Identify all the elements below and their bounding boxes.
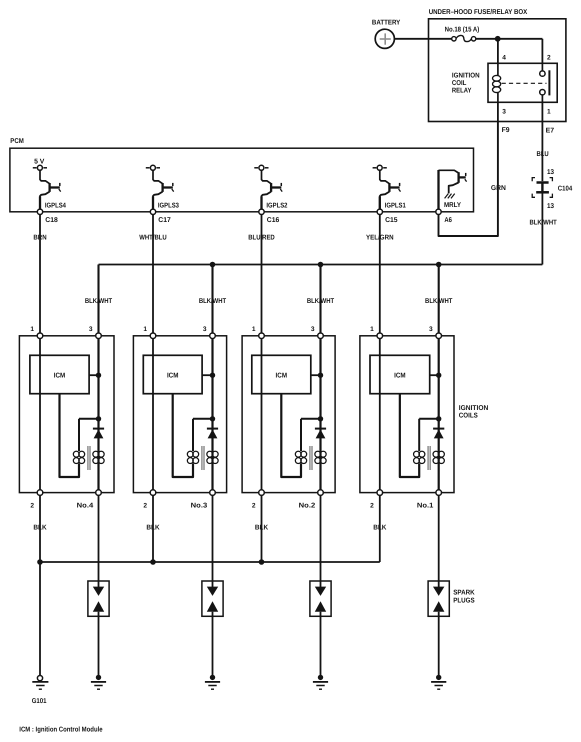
relay contact xyxy=(540,63,550,102)
transformer secondary coil L1b xyxy=(93,451,104,463)
op-amp U3 ICM module box xyxy=(252,355,311,393)
svg-text:BLK/WHT: BLK/WHT xyxy=(530,218,558,226)
wire BLK/WHT drop to ICM pin 3 xyxy=(425,265,453,334)
ground (spark plug 3) xyxy=(313,675,328,690)
wire ICM to pin3 xyxy=(311,374,321,376)
pin 3 of No.3 xyxy=(203,326,215,339)
node C16 xyxy=(259,209,280,224)
junction dot bus/ICM No.3 xyxy=(210,262,216,268)
ground (spark plug 4) xyxy=(431,675,446,690)
svg-text:2: 2 xyxy=(252,503,256,510)
junction dot at ICM output xyxy=(210,373,215,378)
svg-text:IGPLS4: IGPLS4 xyxy=(45,203,66,210)
ignition coils label xyxy=(459,405,489,420)
wire ICM to pin3 xyxy=(202,374,212,376)
ignition coil relay xyxy=(452,63,557,102)
pin 3 of No.4 xyxy=(89,326,101,339)
wire primary left leg xyxy=(78,419,80,451)
ground G101 xyxy=(32,676,49,705)
wire ground bus (bottom) xyxy=(40,561,380,563)
ground (spark plug 1) xyxy=(91,675,106,690)
svg-text:IGPLS3: IGPLS3 xyxy=(158,203,179,210)
pin 1 of No.2 xyxy=(252,326,264,339)
fuse No.18 (15 A) xyxy=(445,25,480,41)
svg-text:YEL/GRN: YEL/GRN xyxy=(366,234,394,242)
wire ICM to pin3 xyxy=(430,374,439,376)
svg-text:1: 1 xyxy=(143,326,147,333)
svg-text:C104: C104 xyxy=(558,186,572,193)
svg-text:3: 3 xyxy=(429,326,433,333)
relay coil xyxy=(493,63,501,102)
svg-text:No.18 (15 A): No.18 (15 A) xyxy=(445,25,480,33)
pin 2 of No.1 xyxy=(370,490,382,510)
ignition coil unit No.1 outer box xyxy=(360,336,454,493)
wire relay pin 3 out of box, terminal F9 xyxy=(498,102,510,134)
wire primary bottom loop to ICM xyxy=(400,394,419,477)
svg-text:BLU: BLU xyxy=(537,151,549,158)
wire primary left leg xyxy=(300,419,302,451)
node C18 xyxy=(37,209,58,224)
junction dot bus G101 xyxy=(37,559,43,565)
wire spark plug to ground xyxy=(98,612,100,676)
wire BRN from PCM to ICM pin 1 xyxy=(33,215,46,334)
junction dot primary/pin3 xyxy=(318,416,323,421)
diode D2 xyxy=(207,429,218,439)
junction dot at ICM output xyxy=(318,373,323,378)
wire primary top xyxy=(79,418,99,420)
pin 3 of No.1 xyxy=(429,326,441,339)
diode D1 xyxy=(93,429,104,439)
transformer primary coil L2a xyxy=(187,451,198,463)
svg-text:BLK/WHT: BLK/WHT xyxy=(199,297,227,305)
svg-text:ICM: ICM xyxy=(167,372,179,379)
svg-text:IGPLS1: IGPLS1 xyxy=(385,203,406,210)
wire coil output to spark plug 4 xyxy=(438,495,440,587)
svg-text:PCM: PCM xyxy=(10,138,24,145)
svg-text:A6: A6 xyxy=(444,217,452,224)
svg-text:1: 1 xyxy=(370,326,374,333)
wire spark plug to ground xyxy=(212,612,214,676)
svg-text:3: 3 xyxy=(89,326,93,333)
svg-text:3: 3 xyxy=(311,326,315,333)
op-amp U1 ICM module box xyxy=(30,355,89,393)
diode D4 xyxy=(433,429,444,439)
svg-text:ICM: ICM xyxy=(276,372,288,379)
output pin No.1 xyxy=(417,490,442,510)
svg-text:F9: F9 xyxy=(502,127,510,134)
wire primary bottom loop to ICM xyxy=(173,394,193,477)
wire BLK pin2 to ground bus xyxy=(146,495,159,562)
pin 2 of No.4 xyxy=(30,490,42,510)
svg-text:1: 1 xyxy=(30,326,34,333)
transistor IGPLS3 (PCM driver Q2) xyxy=(146,165,179,209)
wire coil output to spark plug 1 xyxy=(98,495,100,587)
wire pin1 to pin2 xyxy=(261,339,263,490)
wire pin1 to pin2 xyxy=(152,339,154,490)
transformer primary coil L1a xyxy=(73,451,84,463)
svg-text:RELAY: RELAY xyxy=(452,87,472,94)
transformer secondary coil L4b xyxy=(433,451,444,463)
wire primary left leg xyxy=(192,419,194,451)
svg-text:2: 2 xyxy=(30,503,34,510)
svg-text:BRN: BRN xyxy=(33,235,46,242)
junction dot primary/pin3 xyxy=(96,416,101,421)
spark plug P4 xyxy=(428,581,449,616)
svg-text:13: 13 xyxy=(547,169,554,176)
wire coil output to spark plug 3 xyxy=(320,495,322,587)
svg-text:BLK/WHT: BLK/WHT xyxy=(425,297,453,305)
wire spark plug to ground xyxy=(320,612,322,676)
relay dashed link xyxy=(502,82,547,84)
wire ICM to pin3 xyxy=(89,374,98,376)
wire pin1 to pin2 xyxy=(379,339,381,490)
svg-text:No.3: No.3 xyxy=(191,503,208,510)
svg-text:C16: C16 xyxy=(267,217,280,224)
svg-text:5 V: 5 V xyxy=(34,159,45,166)
svg-text:IGNITION: IGNITION xyxy=(459,405,489,412)
spark plugs label xyxy=(453,590,475,605)
wire GRN: relay pin 3 down, left, up to A6 xyxy=(439,122,506,237)
output pin No.2 xyxy=(299,490,324,510)
junction dot primary/pin3 xyxy=(210,416,215,421)
svg-text:2: 2 xyxy=(370,503,374,510)
svg-text:13: 13 xyxy=(547,203,554,210)
svg-text:3: 3 xyxy=(502,109,506,116)
svg-text:C17: C17 xyxy=(158,217,171,224)
svg-text:2: 2 xyxy=(143,503,147,510)
ignition coil unit No.3 outer box xyxy=(133,336,226,493)
wire BLK pin2 to ground bus xyxy=(255,495,268,562)
ignition coil unit No.4 outer box xyxy=(19,336,114,493)
svg-text:UNDER–HOOD FUSE/RELAY BOX: UNDER–HOOD FUSE/RELAY BOX xyxy=(429,8,528,16)
svg-text:BLK/WHT: BLK/WHT xyxy=(85,297,113,305)
diode D3 xyxy=(315,429,326,439)
spark plug P1 xyxy=(88,581,109,616)
pin 3 of No.2 xyxy=(311,326,323,339)
node C15 xyxy=(377,209,398,224)
svg-text:No.2: No.2 xyxy=(299,503,316,510)
transformer primary coil L3a xyxy=(295,451,306,463)
transformer core xyxy=(310,446,312,470)
transformer secondary coil L2b xyxy=(207,451,218,463)
ignition coil unit No.2 outer box xyxy=(242,336,335,493)
wire BLK/WHT drop to ICM pin 3 xyxy=(199,265,227,334)
wire primary bottom loop to ICM xyxy=(60,394,80,477)
pin 1 of No.4 xyxy=(30,326,42,339)
output pin No.3 xyxy=(191,490,216,510)
wire primary top xyxy=(193,418,213,420)
svg-text:ICM : Ignition Control Module: ICM : Ignition Control Module xyxy=(19,726,102,734)
svg-text:ICM: ICM xyxy=(54,372,66,379)
relay pin labels 4 2 xyxy=(502,55,551,62)
wire pin3 down xyxy=(97,339,99,490)
svg-text:E7: E7 xyxy=(546,128,555,135)
junction dot at ICM output xyxy=(436,373,441,378)
wire pin3 down xyxy=(319,339,321,490)
wire BLU: E7 down to C104 xyxy=(537,122,549,182)
svg-text:SPARK: SPARK xyxy=(453,590,475,597)
wire primary top xyxy=(301,418,321,420)
wire WHT/BLU from PCM to ICM pin 1 xyxy=(139,215,167,334)
junction dot bus/ICM No.1 xyxy=(436,262,442,268)
transistor IGPLS4 (PCM driver Q1) xyxy=(33,159,66,210)
svg-text:No.4: No.4 xyxy=(77,503,94,510)
svg-text:BLK: BLK xyxy=(33,525,46,532)
svg-text:BLK: BLK xyxy=(146,525,159,532)
ground (spark plug 2) xyxy=(205,675,220,690)
svg-text:C15: C15 xyxy=(385,217,398,224)
junction dot after fuse xyxy=(495,36,501,42)
wire primary bottom loop to ICM xyxy=(281,394,301,477)
svg-text:GRN: GRN xyxy=(491,185,506,192)
battery xyxy=(372,19,401,48)
wire BLK/WHT drop to ICM pin 3 xyxy=(307,265,335,334)
svg-text:1: 1 xyxy=(547,109,551,116)
transformer core xyxy=(88,446,90,470)
svg-text:C18: C18 xyxy=(45,217,58,224)
junction dot primary/pin3 xyxy=(436,416,441,421)
transformer primary coil L4a xyxy=(414,451,425,463)
svg-text:COIL: COIL xyxy=(452,80,467,87)
svg-text:No.1: No.1 xyxy=(417,503,434,510)
spark plug P2 xyxy=(202,581,223,616)
svg-text:BLK: BLK xyxy=(255,525,268,532)
relay pin labels 3 1 xyxy=(502,109,551,116)
pin 2 of No.2 xyxy=(252,490,264,510)
wire pin3 down xyxy=(211,339,213,490)
svg-text:COILS: COILS xyxy=(459,412,478,419)
wire bus down to G101 xyxy=(39,562,41,676)
transformer secondary coil L3b xyxy=(315,451,326,463)
spark plug P3 xyxy=(310,581,331,616)
transformer core xyxy=(428,446,430,470)
svg-text:ICM: ICM xyxy=(394,372,406,379)
wire spark plug to ground xyxy=(438,612,440,676)
wire junction down to relay pin 4 xyxy=(497,39,499,64)
svg-text:BLU/RED: BLU/RED xyxy=(248,234,275,242)
svg-text:WHT/BLU: WHT/BLU xyxy=(139,234,167,242)
wire battery to fuse xyxy=(394,38,452,40)
wire BLK/WHT bus (top) xyxy=(99,264,543,266)
wire relay pin 1 out of box, terminal E7 xyxy=(542,102,554,134)
op-amp U2 ICM module box xyxy=(143,355,202,393)
node C17 xyxy=(150,209,171,224)
svg-text:BLK: BLK xyxy=(373,525,386,532)
svg-text:4: 4 xyxy=(502,55,506,62)
svg-text:1: 1 xyxy=(252,326,256,333)
PCM box xyxy=(10,138,474,212)
output pin No.4 xyxy=(77,490,102,510)
transistor IGPLS1 (PCM driver Q4) xyxy=(373,165,406,209)
op-amp U4 ICM module box xyxy=(370,355,430,393)
svg-text:BATTERY: BATTERY xyxy=(372,19,401,26)
junction dot bus No.2 xyxy=(259,559,265,565)
connector C104 xyxy=(532,178,572,198)
svg-text:MRLY: MRLY xyxy=(444,202,461,209)
wire fuse to junction xyxy=(476,38,498,40)
wire BLK pin2 to ground bus xyxy=(373,495,386,562)
wire BLK/WHT: C104 down to bus corner xyxy=(530,192,558,264)
node A6 xyxy=(436,209,452,224)
wire BLU/RED from PCM to ICM pin 1 xyxy=(248,215,275,334)
transistor IGPLS2 (PCM driver Q3) xyxy=(254,165,287,209)
transformer core xyxy=(202,446,204,470)
junction dot bus/ICM No.2 xyxy=(318,262,324,268)
svg-text:BLK/WHT: BLK/WHT xyxy=(307,297,335,305)
wire fuse junction to relay pin 2 xyxy=(498,39,543,64)
svg-text:G101: G101 xyxy=(32,698,47,705)
wire primary top xyxy=(419,418,439,420)
pin 1 of No.1 xyxy=(370,326,382,339)
svg-text:IGPLS2: IGPLS2 xyxy=(266,203,287,210)
svg-text:IGNITION: IGNITION xyxy=(452,72,480,79)
under-hood fuse/relay box xyxy=(429,8,566,122)
wire BLK pin2 to ground bus xyxy=(33,495,46,562)
junction dot at ICM output xyxy=(96,373,101,378)
wire pin1 to pin2 xyxy=(39,339,41,490)
wire pin3 down xyxy=(438,339,440,490)
junction dot bus No.3 xyxy=(150,559,156,565)
pin 1 of No.3 xyxy=(143,326,155,339)
svg-text:PLUGS: PLUGS xyxy=(453,598,475,605)
wire coil output to spark plug 2 xyxy=(212,495,214,587)
wire YEL/GRN from PCM to ICM pin 1 xyxy=(366,215,394,334)
wire primary left leg xyxy=(418,419,420,451)
svg-text:2: 2 xyxy=(547,55,551,62)
pin 2 of No.3 xyxy=(143,490,155,510)
svg-text:3: 3 xyxy=(203,326,207,333)
transistor MRLY (main relay driver) xyxy=(439,170,467,209)
wire BLK/WHT drop to ICM pin 3 xyxy=(85,265,113,334)
